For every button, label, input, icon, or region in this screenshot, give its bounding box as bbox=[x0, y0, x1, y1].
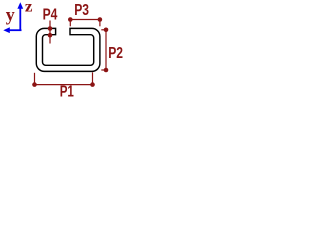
axis arrow z (vertical, blue) bbox=[17, 2, 23, 31]
svg-text:P1: P1 bbox=[60, 84, 74, 101]
svg-text:y: y bbox=[6, 5, 15, 25]
dimension P2: right vertical red line with dots and left ticks bbox=[101, 28, 108, 73]
axis arrow y (horizontal, blue) bbox=[3, 27, 21, 33]
svg-text:P4: P4 bbox=[43, 7, 58, 24]
profile cross-section (slotted C-tube) bbox=[36, 28, 100, 71]
dimension P4: thickness at top-left, vertical red line with two dots bbox=[48, 21, 53, 44]
dimension P3: top horizontal red line with dots and down ticks bbox=[68, 17, 102, 26]
svg-text:z: z bbox=[25, 0, 33, 16]
svg-text:P2: P2 bbox=[108, 45, 123, 62]
dimension P1: bottom horizontal red line with dots and up ticks bbox=[32, 72, 95, 87]
svg-text:P3: P3 bbox=[74, 2, 89, 19]
